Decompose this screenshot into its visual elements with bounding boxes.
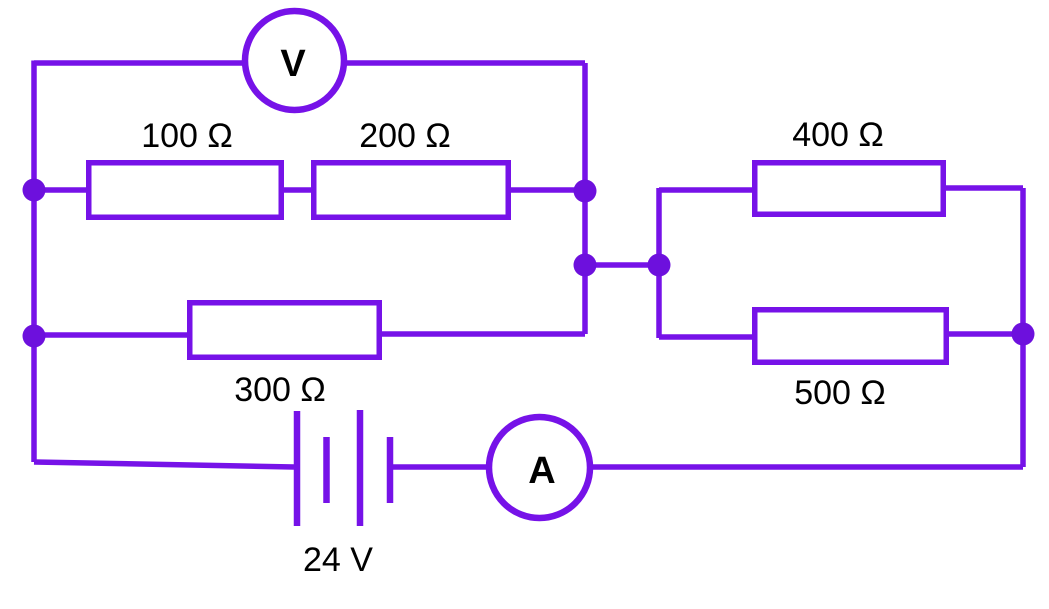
ammeter A1 circle: [489, 417, 590, 518]
svg-text:A: A: [528, 450, 555, 492]
node junction left upper: [23, 179, 46, 202]
wire top-right horizontal: [344, 60, 585, 66]
wire R1 to R2: [281, 187, 314, 193]
wire ammeter to right: [590, 464, 1023, 470]
node junction right of mid: [648, 254, 671, 277]
voltmeter V1 circle: [245, 11, 344, 110]
svg-text:200 Ω: 200 Ω: [359, 117, 451, 155]
svg-text:100 Ω: 100 Ω: [141, 117, 233, 155]
wire riser to R5: [659, 334, 755, 340]
resistor R4 400ohm: [755, 163, 944, 215]
wire right riser x=659: [656, 188, 662, 338]
resistor R3 300ohm: [190, 303, 380, 358]
svg-text:V: V: [280, 43, 306, 85]
battery B1 short plate 1: [323, 437, 330, 503]
wire left vertical rail: [31, 61, 37, 463]
wire node link y=265: [585, 262, 659, 268]
battery B1 long plate 1: [294, 411, 301, 526]
node junction mid lower: [574, 254, 597, 277]
wire R4 to right riser: [944, 185, 1023, 191]
svg-text:300 Ω: 300 Ω: [234, 371, 326, 409]
wire riser to R4: [659, 187, 755, 193]
resistor R2 200ohm: [314, 163, 509, 218]
wire R2 to riser: [508, 187, 585, 193]
wire top-left horizontal: [34, 60, 245, 66]
wire middle riser x=585: [582, 63, 588, 334]
wire R5 to right node: [947, 331, 1023, 337]
wire right vertical upper: [1020, 188, 1026, 334]
svg-text:24 V: 24 V: [303, 541, 373, 579]
node junction left lower: [23, 325, 46, 348]
wire R3 to riser: [381, 331, 585, 337]
wire node to R1: [34, 187, 89, 193]
resistor R5 500ohm: [755, 310, 947, 363]
wire battery to ammeter: [390, 464, 489, 470]
svg-text:500 Ω: 500 Ω: [794, 374, 886, 412]
svg-text:400 Ω: 400 Ω: [792, 116, 884, 154]
wire right vertical lower: [1020, 334, 1026, 467]
wire bottom-left: [34, 462, 294, 467]
wire node to R3: [34, 332, 190, 338]
node junction far right: [1012, 323, 1035, 346]
node junction mid upper: [574, 180, 597, 203]
resistor R1 100ohm: [89, 163, 282, 218]
battery B1 long plate 2: [357, 410, 364, 526]
battery B1 short plate 2: [387, 437, 394, 503]
